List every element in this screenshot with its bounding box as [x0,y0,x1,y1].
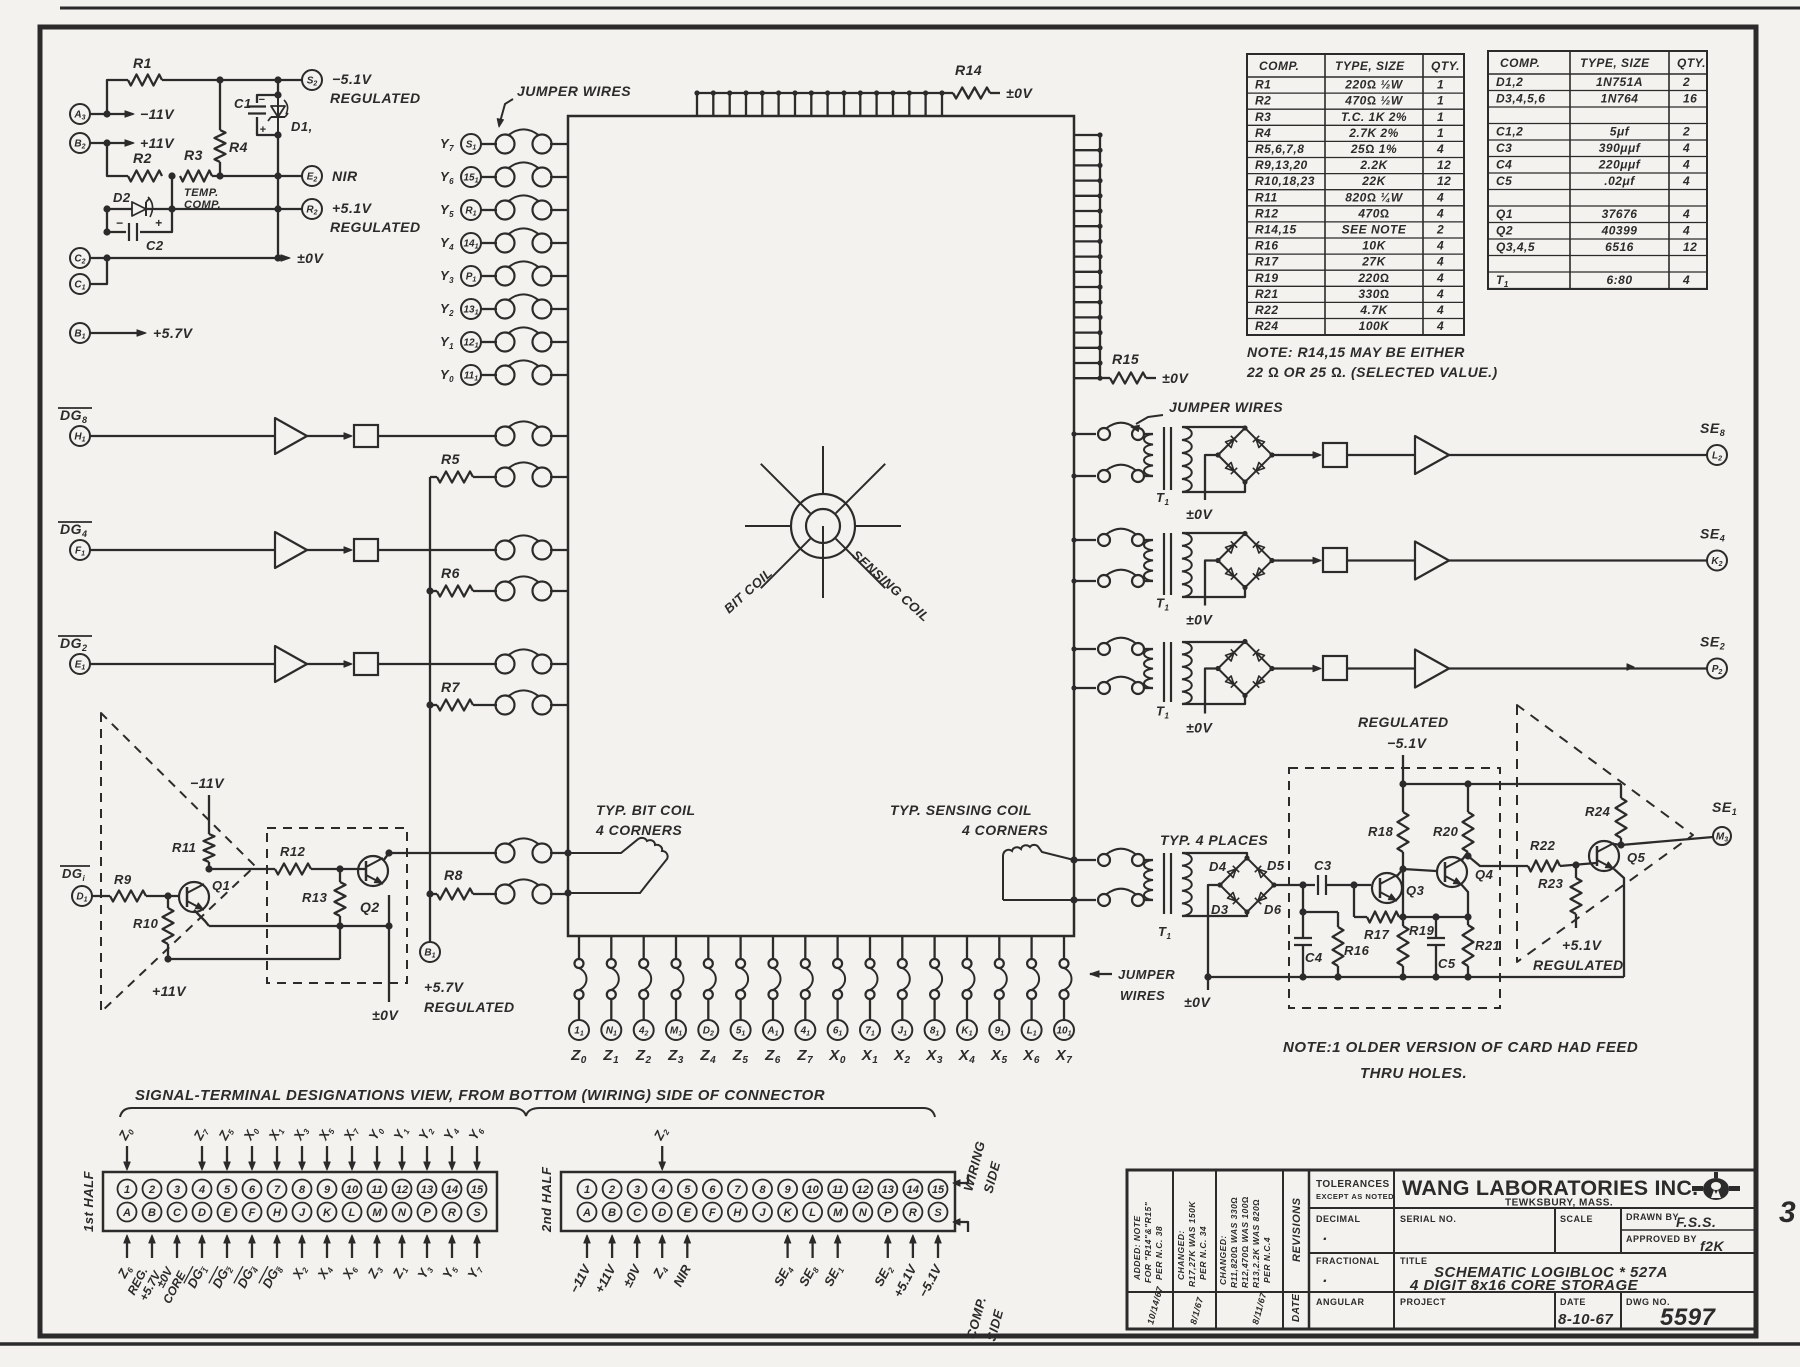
svg-text:R15: R15 [1112,351,1139,367]
svg-text:TOLERANCES: TOLERANCES [1316,1179,1390,1190]
svg-text:SE1: SE1 [1712,799,1737,817]
svg-text:Z0: Z0 [115,1124,137,1144]
svg-text:D2: D2 [113,190,131,205]
wire Q4 output to R22 [1468,856,1528,866]
pin jumper Z7 [801,936,813,1020]
svg-text:+: + [155,216,163,230]
capacitor C2 [103,209,172,253]
svg-text:4: 4 [658,1184,665,1196]
diode label D5 [1267,858,1285,873]
svg-text:820Ω ¼W: 820Ω ¼W [1345,190,1404,204]
dashed amplifier triangle [101,713,255,1012]
SE4 pulse box [1323,548,1347,572]
svg-text:51: 51 [736,1026,746,1038]
svg-text:T1: T1 [1156,596,1169,613]
wire A3 to -11V node [90,110,128,117]
svg-text:C1: C1 [234,96,252,111]
svg-text:±0V: ±0V [1006,85,1033,101]
svg-text:81: 81 [930,1026,940,1038]
wire C3 to Q3 base [1326,881,1371,888]
node Y0 input [440,365,497,385]
svg-text:FRACTIONAL: FRACTIONAL [1316,1256,1380,1266]
SE8 amplifier triangle [1415,436,1449,474]
resistor R7 [430,679,497,711]
svg-text:4: 4 [1436,239,1444,253]
svg-text:R3: R3 [184,147,203,163]
svg-text:PER N.C.4: PER N.C.4 [1262,1237,1272,1283]
+5.1V regulated label [1533,937,1624,973]
pulse box DG2 [354,653,378,675]
svg-text:7: 7 [734,1184,741,1196]
svg-text:R2: R2 [306,205,317,217]
label X1 [861,1047,879,1066]
sensing coil label [849,547,933,625]
svg-text:D1: D1 [76,892,87,904]
wire to pulse box DG2 [307,661,352,667]
svg-text:8/1/67: 8/1/67 [1188,1295,1205,1325]
svg-text:Z4: Z4 [649,1262,671,1282]
resistor R21 [1463,917,1501,977]
svg-text:R13,2.2K WAS 820Ω: R13,2.2K WAS 820Ω [1251,1199,1261,1288]
svg-text:f2K: f2K [1700,1238,1724,1254]
svg-text:L: L [809,1207,816,1219]
svg-text:4 CORNERS: 4 CORNERS [961,822,1048,838]
0V rail wire [90,254,282,261]
2nd half connector box [561,1172,955,1231]
svg-text:41: 41 [800,1026,811,1038]
component table semiconductors [1488,51,1707,289]
pin jumper Z0 [575,936,587,1020]
svg-text:10: 10 [346,1184,359,1196]
svg-text:6: 6 [249,1184,256,1196]
wire B2 to +11V node [90,139,128,146]
svg-text:D1,2: D1,2 [1496,75,1523,89]
svg-text:JUMPER WIRES: JUMPER WIRES [517,83,631,99]
svg-text:SE8: SE8 [1700,420,1725,438]
svg-text:B1: B1 [424,948,435,960]
jumper wires R5 row [496,462,569,486]
pin jumper Z2 [639,936,651,1020]
pulse box DG4 [354,539,378,561]
SE1 wire to lower jumper [1074,899,1096,901]
terminal D1 [72,886,92,906]
ground rail [1204,973,1624,980]
svg-text:7: 7 [274,1184,281,1196]
svg-text:REVISIONS: REVISIONS [1291,1197,1303,1262]
svg-text:DG2: DG2 [60,635,88,653]
svg-text:K: K [784,1207,793,1219]
revision 1 text [1132,1201,1165,1325]
svg-text:·: · [1322,1273,1328,1290]
terminal A3 [70,104,90,124]
wiring side label [960,1139,1003,1195]
svg-text:61: 61 [833,1026,843,1038]
resistor R17 [1354,885,1407,942]
svg-text:R2: R2 [133,150,152,166]
svg-text:37676: 37676 [1602,207,1638,221]
svg-text:C2: C2 [74,254,85,266]
terminal B1 regulated [420,942,440,962]
SE1 upper jumper wires [1098,849,1144,866]
svg-text:4: 4 [1436,271,1444,285]
SE4 wire bridge to box [1272,557,1321,563]
svg-text:R20: R20 [1433,824,1459,839]
comp side bracket [953,1219,968,1232]
svg-text:Y0: Y0 [440,367,454,384]
svg-text:−11V: −11V [190,775,225,791]
svg-text:P1: P1 [466,272,477,284]
+11V arrow and label [125,135,175,151]
typ bit coil label [595,802,696,838]
svg-text:1: 1 [584,1184,590,1196]
svg-text:8/11/67: 8/11/67 [1250,1291,1268,1326]
svg-text:Y6: Y6 [465,1123,486,1143]
svg-text:1: 1 [1437,126,1444,140]
svg-text:Z7: Z7 [796,1047,813,1066]
+11V node [152,955,187,999]
page number 3 [1779,1196,1796,1229]
terminal E1 [70,654,90,674]
svg-text:R22: R22 [1530,838,1556,853]
resistor R12 [275,844,366,875]
svg-text:R2: R2 [1255,94,1271,108]
SE2 0V stub [1186,669,1218,736]
emitter rail wire [194,910,393,930]
label X3 [925,1047,943,1066]
svg-text:WIRES: WIRES [1120,988,1165,1003]
top comb bus wires [694,90,944,116]
typ bit coil 4 corners drawing [564,838,667,897]
terminal 91 pin [989,1020,1009,1040]
svg-text:T1: T1 [1156,704,1169,721]
svg-text:D6: D6 [1264,902,1282,917]
regulated -5.1V label [1358,714,1449,751]
svg-text:QTY.: QTY. [1677,56,1706,70]
pin jumper X5 [995,936,1007,1020]
svg-text:TEMP.: TEMP. [184,187,219,199]
svg-text:4: 4 [1436,142,1444,156]
SE8 upper jumper wires [1098,423,1144,440]
terminal M3 [1713,827,1731,845]
resistor R13 [302,869,346,930]
svg-text:D3: D3 [1211,902,1229,917]
SE4 SE4 label [1700,526,1725,544]
node DG1 label [60,866,90,883]
svg-text:470Ω ½W: 470Ω ½W [1344,94,1404,108]
svg-text:Y4: Y4 [440,235,454,252]
svg-text:X4: X4 [958,1047,976,1066]
svg-text:S: S [473,1207,481,1219]
svg-text:R9,13,20: R9,13,20 [1255,158,1308,172]
svg-text:4.7K: 4.7K [1359,303,1388,317]
SE4 upper jumper wires [1098,529,1144,546]
svg-text:Y6: Y6 [440,169,454,186]
svg-text:+11V: +11V [140,135,175,151]
svg-text:2.7K 2%: 2.7K 2% [1348,126,1399,140]
svg-text:Z4: Z4 [699,1047,716,1066]
label Z0 [570,1047,587,1066]
svg-text:C5: C5 [1438,956,1456,971]
svg-text:Q4: Q4 [1475,867,1494,882]
svg-text:TYP. BIT COIL: TYP. BIT COIL [596,802,696,818]
svg-text:Y4: Y4 [440,1123,461,1143]
svg-text:T1: T1 [1158,924,1171,941]
svg-text:Z5: Z5 [215,1124,237,1144]
svg-text:2nd HALF: 2nd HALF [539,1166,554,1233]
svg-text:2: 2 [1682,75,1690,89]
SE1 0V branch [1184,885,1220,1010]
terminal L1 pin [1022,1020,1042,1040]
resistor R6 [430,565,497,597]
wire box to jumper DG2 [378,663,497,665]
resistor R15 [1100,351,1156,384]
svg-text:4 CORNERS: 4 CORNERS [595,822,682,838]
svg-text:Q3,4,5: Q3,4,5 [1496,240,1535,254]
wire node to +5.1V row [168,176,175,213]
SE2 wire to upper jumper [1071,646,1096,651]
label Z7 [796,1047,813,1066]
svg-text:12: 12 [396,1184,408,1196]
svg-text:42: 42 [638,1026,649,1038]
terminal 11 pin [569,1020,589,1040]
svg-text:Y3: Y3 [440,268,454,285]
svg-text:R5: R5 [441,451,460,467]
svg-text:REGULATED: REGULATED [424,999,515,1015]
pin jumper X6 [1027,936,1039,1020]
svg-text:C4: C4 [1305,950,1323,965]
terminal R2 out [302,199,322,219]
svg-text:R18: R18 [1368,824,1394,839]
resistor R16 [1303,912,1370,977]
terminal H1 [70,426,90,446]
svg-text:PER N.C. 38: PER N.C. 38 [1154,1226,1164,1280]
svg-text:X1: X1 [861,1047,879,1066]
svg-text:M3: M3 [1716,832,1728,844]
svg-text:101: 101 [1056,1026,1071,1038]
svg-text:8: 8 [759,1184,766,1196]
1st half connector box [103,1172,497,1231]
SE1 output wire [1621,837,1713,845]
svg-text:14: 14 [446,1184,458,1196]
svg-text:−11V: −11V [140,106,175,122]
svg-text:TEWKSBURY, MASS.: TEWKSBURY, MASS. [1505,1198,1613,1209]
svg-text:151: 151 [463,173,478,185]
label X7 [1055,1047,1073,1066]
svg-text:R23: R23 [1538,876,1564,891]
0V label at R14 [1006,85,1033,101]
sheet bottom edge line [0,1342,1800,1346]
jumper wires Y1 [496,327,569,351]
node Y5 input [440,200,497,220]
svg-text:THRU HOLES.: THRU HOLES. [1360,1065,1467,1082]
-5.1V REGULATED label [330,71,421,106]
svg-text:R13: R13 [302,890,328,905]
node Y1 input [440,332,497,352]
node Y7 input [440,134,497,154]
TYP 4 PLACES label [1160,832,1268,848]
scale cell [1560,1214,1593,1224]
SE8 wire bridge to box [1272,452,1321,458]
pin jumper Z6 [769,936,781,1020]
wire to pulse box DG4 [307,547,352,553]
transistor Q1 [179,878,230,912]
label Z6 [764,1047,781,1066]
resistor R19 [1398,869,1435,977]
SE1 wire to upper jumper [1074,859,1096,861]
svg-text:12: 12 [857,1184,869,1196]
svg-text:220Ω ½W: 220Ω ½W [1344,78,1404,92]
svg-text:2: 2 [148,1184,155,1196]
jumper wires Y0 [496,360,569,384]
plus-minus 0V label [281,250,324,266]
svg-text:1N751A: 1N751A [1596,75,1643,89]
terminal C2 [70,248,90,268]
svg-text:11: 11 [371,1184,382,1196]
wire Q4 base [1403,869,1436,871]
svg-text:R21: R21 [1475,938,1500,953]
svg-text:H: H [733,1207,742,1219]
svg-text:5μf: 5μf [1610,124,1630,138]
svg-text:EXCEPT AS NOTED: EXCEPT AS NOTED [1316,1192,1394,1201]
pin jumper Z3 [672,936,684,1020]
svg-text:330Ω: 330Ω [1358,287,1389,301]
terminal D2 pin [698,1020,718,1040]
resistor R4 [215,80,248,176]
svg-text:R10,18,23: R10,18,23 [1255,174,1315,188]
svg-text:±0V: ±0V [1186,506,1213,522]
svg-text:Y0: Y0 [365,1123,386,1143]
wire Q5 emitter to rail [1614,869,1624,977]
svg-text:X6: X6 [339,1262,361,1283]
wire A3 node up to R1 [107,80,128,114]
node Y4 input [440,233,497,253]
svg-text:±0V: ±0V [372,1007,399,1023]
diode label D3 [1211,902,1229,917]
svg-text:11: 11 [574,1026,584,1038]
terminal S2 [302,70,322,90]
project cell [1400,1297,1446,1307]
svg-text:TYPE, SIZE: TYPE, SIZE [1580,56,1650,70]
svg-text:±0V: ±0V [620,1261,645,1290]
svg-text:M: M [833,1207,843,1219]
svg-text:E1: E1 [75,660,86,672]
terminal A1 pin [763,1020,783,1040]
sheet top edge line [60,7,1800,10]
wire -11V to R11 [208,795,210,834]
capacitor C3 [1314,858,1332,895]
table note [1246,344,1498,380]
SE2 upper jumper wires [1098,638,1144,655]
svg-text:R24: R24 [1585,804,1611,819]
svg-text:SIDE: SIDE [980,1160,1003,1195]
resistor R11 [172,834,215,873]
1st half label [81,1170,96,1232]
svg-text:Y2: Y2 [415,1123,436,1143]
amplifier triangle DG2 [275,646,307,682]
svg-text:4 DIGIT 8x16 CORE STORAGE: 4 DIGIT 8x16 CORE STORAGE [1409,1277,1639,1294]
SE2 wire to lower jumper [1071,685,1096,690]
svg-text:TITLE: TITLE [1400,1256,1428,1266]
svg-text:S1: S1 [466,140,477,152]
wire H1 to amp [90,435,275,437]
svg-text:15: 15 [471,1184,484,1196]
svg-text:Q5: Q5 [1627,850,1646,865]
jumper wires callout top [497,83,631,127]
svg-text:+5.7V: +5.7V [153,325,194,341]
svg-text:Z2: Z2 [635,1047,652,1066]
svg-text:T1: T1 [1156,490,1169,507]
svg-text:R1: R1 [133,55,152,71]
SE8 wire box to amp [1347,454,1415,456]
svg-text:−: − [259,94,266,106]
pin jumper X3 [930,936,942,1020]
svg-text:R17: R17 [1255,255,1279,269]
resistor R20 [1433,784,1474,852]
amplifier triangle DG8 [275,418,307,454]
wire Q4 collector [1462,852,1472,860]
svg-text:DG8: DG8 [259,1262,286,1292]
svg-text:−5.1V: −5.1V [332,71,373,87]
svg-text:T.C. 1K 2%: T.C. 1K 2% [1341,110,1407,124]
svg-text:4: 4 [1682,273,1690,287]
jumper wires Y7 [496,129,569,153]
typ sensing coil 4 corners drawing [1003,845,1078,904]
SE2 diode bridge [1215,639,1274,698]
svg-text:S2: S2 [307,76,318,88]
pin jumper X2 [898,936,910,1020]
jumper wires callout right [1131,399,1283,432]
svg-text:X3: X3 [925,1047,943,1066]
svg-text:E2: E2 [307,172,318,184]
svg-text:3: 3 [1779,1196,1796,1229]
terminal 71 pin [860,1020,880,1040]
label Z3 [667,1047,684,1066]
svg-text:NOTE: R14,15 MAY BE EITHER: NOTE: R14,15 MAY BE EITHER [1247,344,1465,360]
svg-text:R11,820Ω WAS 330Ω: R11,820Ω WAS 330Ω [1229,1197,1239,1288]
svg-text:±0V: ±0V [297,250,324,266]
svg-text:4: 4 [1682,223,1690,237]
bus wire R5-R8 [426,477,433,898]
svg-text:5: 5 [684,1184,691,1196]
svg-text:R: R [448,1207,456,1219]
svg-text:Q2: Q2 [360,899,380,915]
svg-text:C3: C3 [1314,858,1332,873]
svg-text:D5: D5 [1267,858,1285,873]
SE4 terminal K2 [1707,551,1727,571]
diode label D4 [1209,859,1227,874]
svg-text:R16: R16 [1344,943,1370,958]
svg-text:12: 12 [1683,240,1697,254]
terminal F1 [70,540,90,560]
svg-text:FOR "R14"&"R15": FOR "R14"&"R15" [1143,1201,1153,1283]
amplifier triangle DG4 [275,532,307,568]
svg-text:8-10-67: 8-10-67 [1558,1311,1613,1328]
wire R1 to S2 [162,76,302,83]
svg-text:27K: 27K [1361,255,1386,269]
svg-text:BIT COIL: BIT COIL [721,565,775,616]
resistor R14 [942,62,1000,99]
pin jumper X7 [1060,936,1072,1020]
svg-text:E: E [223,1207,231,1219]
SE4 transformer secondary wires [1182,533,1245,597]
svg-text:R19: R19 [1255,271,1279,285]
serial no cell [1400,1214,1456,1224]
svg-text:ADDED: NOTE: ADDED: NOTE [1132,1215,1142,1281]
mid rail wire [1403,913,1472,920]
svg-text:SE4: SE4 [1700,526,1725,544]
wire B1 +5.7V [90,325,194,341]
jumper wires Y4 [496,228,569,252]
